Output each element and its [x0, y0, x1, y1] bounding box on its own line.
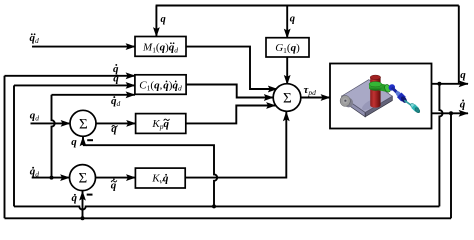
svg-text:qd: qd: [111, 95, 121, 108]
svg-text:Σ: Σ: [79, 171, 88, 187]
svg-text:G: G: [275, 42, 283, 54]
svg-text:qd: qd: [30, 166, 40, 179]
svg-text:τpd: τpd: [304, 84, 317, 97]
svg-text:d: d: [178, 84, 182, 93]
svg-text:q: q: [71, 136, 77, 148]
svg-text:qd: qd: [30, 110, 40, 123]
svg-text:Σ: Σ: [283, 91, 292, 107]
svg-text:Σ: Σ: [79, 116, 88, 132]
svg-text:q: q: [460, 69, 466, 81]
svg-text:d: d: [174, 45, 178, 54]
svg-text:q: q: [290, 14, 295, 25]
svg-text:q: q: [113, 73, 119, 85]
svg-text:q: q: [161, 14, 166, 25]
svg-text:,: ,: [160, 80, 163, 92]
svg-text:q: q: [111, 123, 117, 135]
svg-text:): ): [296, 42, 300, 54]
